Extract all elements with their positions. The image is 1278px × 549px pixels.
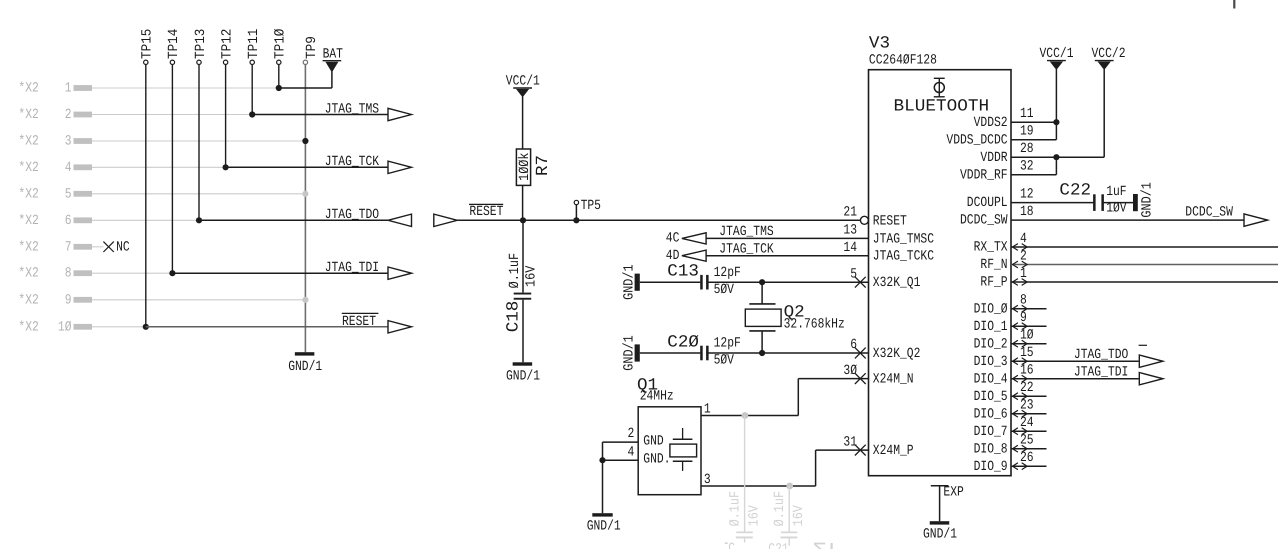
svg-text:31: 31 — [843, 434, 857, 450]
svg-text:2: 2 — [65, 107, 72, 123]
svg-text:5: 5 — [65, 186, 72, 202]
svg-text:TP11: TP11 — [246, 29, 262, 59]
svg-text:TP15: TP15 — [140, 29, 156, 59]
svg-text:RESET: RESET — [873, 213, 907, 229]
svg-text:DIO_5: DIO_5 — [974, 389, 1008, 405]
svg-text:4C: 4C — [666, 231, 680, 247]
svg-text:DCDC_SW: DCDC_SW — [960, 213, 1008, 229]
svg-text:TP5: TP5 — [581, 198, 601, 214]
svg-text:JTAG_TDO: JTAG_TDO — [1074, 347, 1128, 363]
svg-text:X24M_P: X24M_P — [873, 443, 914, 459]
svg-text:JTAG_TCK: JTAG_TCK — [719, 241, 774, 257]
svg-text:*X2: *X2 — [18, 239, 38, 255]
svg-text:C13: C13 — [667, 263, 699, 282]
svg-text:*X2: *X2 — [18, 186, 38, 202]
svg-text:Ø.1uF: Ø.1uF — [507, 253, 523, 289]
svg-text:*X2: *X2 — [18, 213, 38, 229]
svg-text:DIO_3: DIO_3 — [974, 354, 1008, 370]
svg-text:TP13: TP13 — [193, 29, 209, 59]
svg-text:JTAG_TMSC: JTAG_TMSC — [873, 231, 934, 247]
svg-text:RX_TX: RX_TX — [974, 240, 1008, 256]
svg-text:JTAG_TCKC: JTAG_TCKC — [873, 249, 934, 265]
svg-text:EXP: EXP — [943, 485, 963, 501]
svg-text:4: 4 — [628, 444, 635, 460]
svg-text:6: 6 — [65, 213, 72, 229]
svg-text:VDDS2: VDDS2 — [974, 115, 1008, 131]
svg-text:23: 23 — [1020, 398, 1034, 414]
svg-text:19: 19 — [1020, 124, 1034, 140]
svg-text:Ø.1uF: Ø.1uF — [728, 491, 744, 527]
svg-text:32: 32 — [1020, 159, 1034, 175]
svg-text:21: 21 — [843, 205, 857, 221]
svg-text:1ØØk: 1ØØk — [517, 152, 533, 180]
svg-text:CC264ØF128: CC264ØF128 — [869, 53, 937, 69]
svg-text:DCOUPL: DCOUPL — [967, 195, 1008, 211]
svg-text:JTAG_TDI: JTAG_TDI — [325, 260, 379, 276]
svg-text:RESET: RESET — [469, 204, 503, 220]
svg-text:*X2: *X2 — [18, 134, 38, 150]
svg-text:1uF: 1uF — [1106, 184, 1126, 200]
svg-text:12pF: 12pF — [714, 336, 741, 352]
svg-text:JTAG_TCK: JTAG_TCK — [325, 154, 380, 170]
svg-text:3: 3 — [704, 472, 711, 488]
svg-text:JTAG_TDO: JTAG_TDO — [325, 207, 379, 223]
svg-text:RF_P: RF_P — [980, 275, 1007, 291]
svg-text:16V: 16V — [746, 505, 762, 527]
svg-text:*X2: *X2 — [18, 160, 38, 176]
svg-text:JTAG_TMS: JTAG_TMS — [325, 101, 379, 117]
svg-text:22: 22 — [1020, 380, 1034, 396]
svg-text:DIO_7: DIO_7 — [974, 424, 1008, 440]
svg-text:15: 15 — [1020, 345, 1034, 361]
svg-text:28: 28 — [1020, 141, 1034, 157]
svg-text:TP1Ø: TP1Ø — [273, 29, 289, 59]
svg-text:1ØV: 1ØV — [1106, 201, 1127, 217]
svg-text:GND.: GND. — [643, 452, 670, 468]
svg-text:16V: 16V — [791, 505, 807, 527]
svg-text:5ØV: 5ØV — [714, 353, 735, 369]
svg-text:2: 2 — [628, 426, 635, 442]
svg-text:GND/1: GND/1 — [923, 526, 957, 542]
svg-text:11: 11 — [1020, 106, 1034, 122]
svg-text:DIO_1: DIO_1 — [974, 319, 1008, 335]
svg-text:5ØV: 5ØV — [714, 282, 735, 298]
svg-text:GND/1: GND/1 — [621, 335, 637, 371]
svg-text:DCDC_SW: DCDC_SW — [1185, 205, 1233, 221]
svg-text:*X2: *X2 — [18, 319, 38, 335]
svg-text:GND/1: GND/1 — [587, 518, 621, 534]
svg-text:Ø.1uF: Ø.1uF — [772, 491, 788, 527]
svg-text:VDDR_RF: VDDR_RF — [960, 167, 1008, 183]
svg-text:JTAG_TMS: JTAG_TMS — [719, 224, 773, 240]
svg-text:VCC/2: VCC/2 — [1092, 46, 1126, 62]
svg-text:1Ø: 1Ø — [1020, 328, 1034, 344]
svg-text:BAT: BAT — [323, 47, 343, 63]
svg-text:3: 3 — [65, 134, 72, 150]
svg-text:26: 26 — [1020, 450, 1034, 466]
svg-text:C2Ø: C2Ø — [667, 333, 699, 352]
svg-text:1: 1 — [65, 81, 72, 97]
svg-text:6: 6 — [850, 337, 857, 353]
svg-text:13: 13 — [843, 223, 857, 239]
svg-text:TP12: TP12 — [219, 29, 235, 59]
svg-text:X32K_Q1: X32K_Q1 — [873, 275, 921, 291]
svg-text:DIO_8: DIO_8 — [974, 441, 1008, 457]
svg-text:14: 14 — [843, 240, 857, 256]
svg-text:X32K_Q2: X32K_Q2 — [873, 346, 921, 362]
svg-text:NC: NC — [116, 240, 130, 256]
svg-text:18: 18 — [1020, 204, 1034, 220]
svg-text:DIO_9: DIO_9 — [974, 459, 1008, 475]
svg-text:25: 25 — [1020, 433, 1034, 449]
svg-text:C22: C22 — [1059, 181, 1091, 200]
svg-text:X24M_N: X24M_N — [873, 372, 914, 388]
svg-text:1: 1 — [704, 401, 711, 417]
svg-text:8: 8 — [65, 266, 72, 282]
svg-text:12pF: 12pF — [714, 265, 741, 281]
svg-text:*X2: *X2 — [18, 266, 38, 282]
svg-text:GND/1: GND/1 — [621, 264, 637, 300]
svg-text:R7: R7 — [534, 155, 553, 176]
svg-text:*X2: *X2 — [18, 292, 38, 308]
svg-text:VDDR: VDDR — [980, 150, 1008, 166]
svg-text:4D: 4D — [666, 248, 680, 264]
svg-text:7: 7 — [65, 239, 72, 255]
svg-text:C18: C18 — [505, 301, 524, 333]
svg-text:*X2: *X2 — [18, 81, 38, 97]
svg-text:12: 12 — [1020, 187, 1034, 203]
svg-text:4: 4 — [65, 160, 72, 176]
svg-text:16V: 16V — [523, 265, 539, 287]
svg-text:TP14: TP14 — [166, 29, 182, 59]
svg-text:GND/1: GND/1 — [506, 369, 540, 385]
svg-text:DIO_6: DIO_6 — [974, 406, 1008, 422]
svg-text:32.768kHz: 32.768kHz — [784, 316, 845, 332]
svg-text:JTAG_TDI: JTAG_TDI — [1074, 365, 1128, 381]
svg-text:V3: V3 — [869, 35, 890, 54]
svg-text:C: C — [728, 541, 735, 549]
svg-text:GND/1: GND/1 — [288, 359, 322, 375]
svg-text:C21: C21 — [768, 541, 788, 549]
svg-text:3Ø: 3Ø — [843, 363, 857, 379]
svg-text:GND: GND — [643, 433, 663, 449]
svg-text:DIO_4: DIO_4 — [974, 371, 1008, 387]
svg-text:24: 24 — [1020, 415, 1034, 431]
svg-text:GND/1: GND/1 — [1140, 182, 1156, 218]
svg-text:*X2: *X2 — [18, 107, 38, 123]
svg-text:VCC/1: VCC/1 — [506, 74, 540, 90]
svg-text:RESET: RESET — [342, 314, 376, 330]
svg-text:5: 5 — [850, 266, 857, 282]
svg-text:VCC/1: VCC/1 — [1040, 46, 1074, 62]
svg-text:1Ø: 1Ø — [58, 319, 72, 335]
svg-text:DIO_2: DIO_2 — [974, 336, 1008, 352]
svg-text:VDDS_DCDC: VDDS_DCDC — [946, 132, 1007, 148]
svg-text:16: 16 — [1020, 363, 1034, 379]
svg-text:RF_N: RF_N — [980, 257, 1007, 273]
svg-text:9: 9 — [65, 292, 72, 308]
svg-text:24MHz: 24MHz — [640, 389, 674, 405]
svg-text:TP9: TP9 — [304, 36, 320, 59]
svg-text:DIO_Ø: DIO_Ø — [974, 301, 1008, 317]
